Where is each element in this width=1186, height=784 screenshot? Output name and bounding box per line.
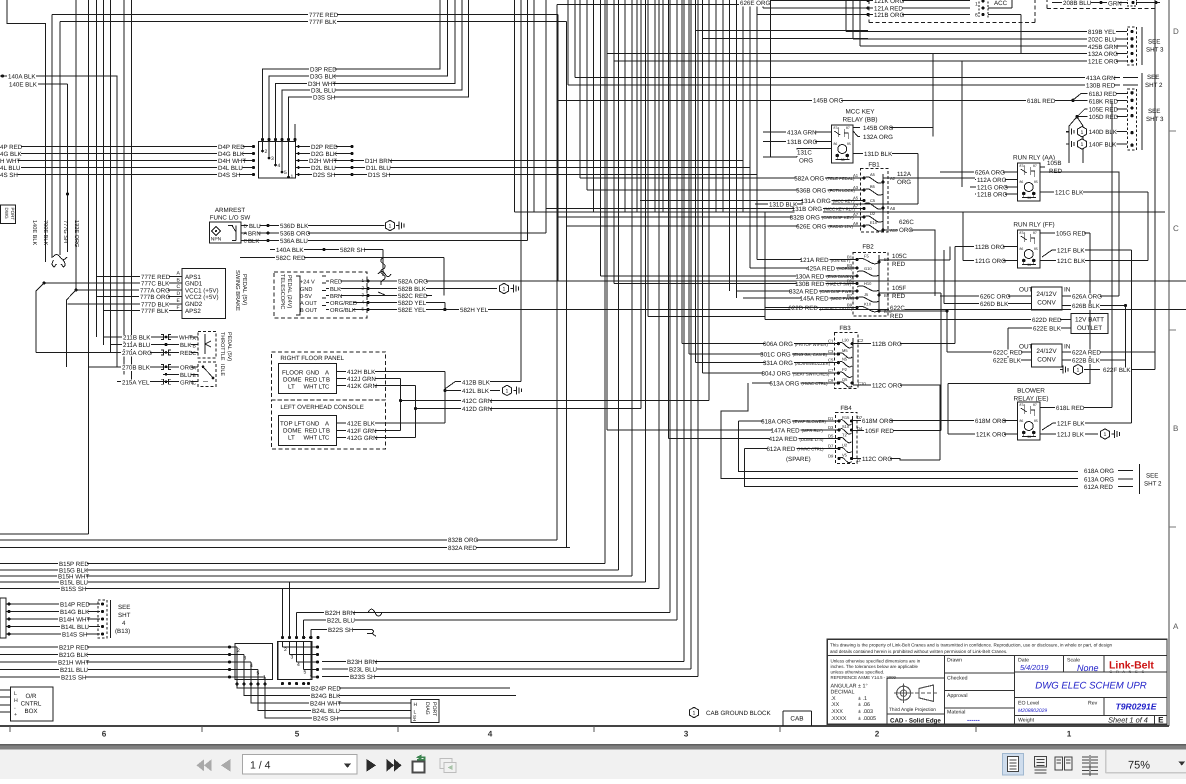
wire 121G ORG to FF <box>963 260 1018 262</box>
svg-text:4: 4 <box>362 300 365 305</box>
svg-text:536D BLK: 536D BLK <box>280 223 309 230</box>
svg-text:BLK: BLK <box>248 238 259 245</box>
wire 121E ORG sht3 <box>614 60 1127 62</box>
svg-text:412G GRN: 412G GRN <box>347 435 378 442</box>
svg-text:211A BLU: 211A BLU <box>123 342 150 349</box>
svg-text:C5: C5 <box>828 358 834 363</box>
component 24/12V CONV lower <box>1032 344 1063 367</box>
wire 622B BLK conv2 <box>1062 359 1126 361</box>
svg-text:RELAY (BB): RELAY (BB) <box>843 117 878 124</box>
svg-text:FB2: FB2 <box>862 244 874 251</box>
zone ticks right margin <box>1169 130 1176 132</box>
svg-text:1 / 4: 1 / 4 <box>250 760 271 772</box>
svg-text:626A ORG: 626A ORG <box>975 170 1005 177</box>
svg-text:(HVAC CTRL): (HVAC CTRL) <box>801 381 828 386</box>
svg-text:LEFT OVERHEAD CONSOLE: LEFT OVERHEAD CONSOLE <box>280 404 363 411</box>
toolbar two page continuous button <box>1082 757 1098 763</box>
wire 121C BLK from FF <box>1040 260 1148 262</box>
svg-text:(SEAT SWITCHES): (SEAT SWITCHES) <box>793 371 830 376</box>
svg-text:DOME: DOME <box>283 376 302 383</box>
wire 412D GRN <box>415 385 417 437</box>
svg-text:B14L BLU: B14L BLU <box>61 624 89 631</box>
label 412F GRN <box>346 428 375 435</box>
svg-text:626A ORG: 626A ORG <box>1072 294 1102 301</box>
svg-text:B9: B9 <box>847 303 853 308</box>
label 121E ORG sht3 <box>1087 59 1116 66</box>
connector box2 bottom <box>278 641 312 679</box>
svg-text:SHT 2: SHT 2 <box>1144 481 1162 488</box>
wire 582B ORG out to ground <box>432 288 497 290</box>
svg-text:CNTRL: CNTRL <box>21 701 42 708</box>
label D4 left edge labels <box>0 144 21 151</box>
svg-text:L30: L30 <box>842 338 849 343</box>
svg-text:4: 4 <box>278 163 281 169</box>
svg-text:145B ORG: 145B ORG <box>863 125 893 132</box>
label B24L BLU <box>311 708 340 715</box>
svg-text:LT: LT <box>288 383 295 390</box>
label D1S SH <box>367 172 389 179</box>
shield hook B22S <box>367 629 376 636</box>
svg-text:2: 2 <box>284 647 287 653</box>
wire 626A ORG conv in <box>1062 295 1119 297</box>
label 777D BLK <box>140 302 169 309</box>
svg-text:536A BLU: 536A BLU <box>280 238 308 245</box>
svg-text:112A ORG: 112A ORG <box>977 177 1007 184</box>
svg-text:D5: D5 <box>828 434 834 439</box>
throttle pot box <box>198 332 216 359</box>
wire B15 lines <box>0 563 605 565</box>
svg-text:ARMREST: ARMREST <box>215 207 245 214</box>
svg-text:B21L BLU: B21L BLU <box>60 667 88 674</box>
svg-text:B22S SH: B22S SH <box>328 627 353 634</box>
wire armrest BLK row <box>240 240 243 242</box>
svg-text:H10: H10 <box>864 281 872 286</box>
svg-text:B7: B7 <box>847 293 853 298</box>
svg-text:A: A <box>325 369 329 376</box>
wire 832B ORG long <box>0 539 557 541</box>
svg-text:D4P RED: D4P RED <box>218 144 245 151</box>
svg-text:121A RED: 121A RED <box>800 257 829 264</box>
svg-text:C1: C1 <box>828 339 834 344</box>
zone ticks bottom <box>9 726 11 732</box>
label B22H BRN <box>324 610 353 617</box>
svg-text:140E BLK: 140E BLK <box>9 82 38 89</box>
wire 112A ORG from FB1 <box>883 177 975 179</box>
component DIAG PORT <box>411 700 439 723</box>
svg-text:APS2: APS2 <box>185 308 201 315</box>
svg-text:24/12V: 24/12V <box>1036 291 1057 298</box>
svg-text:215A YEL: 215A YEL <box>122 379 150 386</box>
svg-text:(MCC KEY RLY): (MCC KEY RLY) <box>824 207 855 212</box>
toolbar single page layout button selected <box>1002 754 1023 776</box>
label 121F BLK ff <box>1056 248 1085 255</box>
svg-text:C5: C5 <box>870 198 876 203</box>
svg-text:SWING BRAKE: SWING BRAKE <box>234 270 241 311</box>
label 112B ORG ff <box>974 244 1003 251</box>
wire 211A BLU row <box>111 344 199 346</box>
svg-text:ORG/BLK: ORG/BLK <box>330 307 356 314</box>
svg-text:211B BLK: 211B BLK <box>123 335 151 342</box>
wire top-left corner loop <box>7 0 46 262</box>
svg-text:85: 85 <box>1034 180 1038 184</box>
svg-text:CAB GROUND BLOCK: CAB GROUND BLOCK <box>706 710 772 717</box>
svg-text:121F BLK: 121F BLK <box>1057 248 1085 255</box>
label D2P RED <box>310 144 335 151</box>
svg-text:C2: C2 <box>858 338 864 343</box>
wire 412 vertical H-E <box>444 372 446 423</box>
svg-text:331A ORG: 331A ORG <box>763 360 793 367</box>
wire 832A RED long <box>0 547 570 549</box>
wire mid bundle x514-570 <box>514 0 516 212</box>
wire 105D RED <box>1077 116 1127 118</box>
toolbar previous view icon <box>413 762 425 773</box>
svg-text:832A RED: 832A RED <box>448 545 477 552</box>
label B15L BLU <box>59 580 88 587</box>
svg-text:FB4: FB4 <box>840 405 852 412</box>
svg-text:T2: T2 <box>842 433 847 438</box>
bracket SEE SHT 4 <box>110 600 112 638</box>
node 140E BLK <box>38 83 68 85</box>
wire 777B ORG row <box>96 296 182 298</box>
svg-text:B5: B5 <box>870 184 876 189</box>
svg-text:C R A N E S: C R A N E S <box>1110 670 1146 674</box>
label 626E ORG top <box>557 4 763 6</box>
inline connector 211B <box>161 335 171 340</box>
wire 777F BLK top <box>60 21 566 23</box>
tolerance cell <box>944 656 946 725</box>
wire D2 rows out of connector <box>296 146 353 148</box>
label 121K ORG <box>873 0 902 5</box>
svg-text:131B ORG: 131B ORG <box>787 139 817 146</box>
svg-text:------: ------ <box>967 717 980 724</box>
wire B22L BLU <box>304 619 677 621</box>
svg-text:IN: IN <box>1064 287 1071 294</box>
svg-text:.XX: .XX <box>831 702 840 708</box>
wire 202C BLU <box>853 38 1127 40</box>
svg-text:87a: 87a <box>1020 231 1026 235</box>
label 536B ORG <box>279 231 308 238</box>
wire 105E RED <box>1077 109 1127 117</box>
svg-text:ORG/RED: ORG/RED <box>330 300 357 307</box>
wire 131D BLK lower label <box>755 203 918 205</box>
svg-text:B: B <box>326 376 330 383</box>
label 121G ORG aa <box>976 185 1005 192</box>
label 105E RED <box>1088 107 1117 114</box>
svg-text:Weight: Weight <box>1018 718 1035 724</box>
svg-text:EO Level: EO Level <box>1018 701 1039 707</box>
svg-text:B: B <box>1173 424 1178 433</box>
wire 412E BLK <box>337 422 445 424</box>
wire 618A ORG to SHT2 <box>739 421 1079 472</box>
svg-text:B23S SH: B23S SH <box>350 674 375 681</box>
svg-text:A9: A9 <box>853 221 859 226</box>
svg-text:F: F <box>177 305 180 311</box>
label 412G GRN <box>346 435 375 442</box>
svg-text:M5: M5 <box>842 348 848 353</box>
svg-text:B: B <box>326 428 330 435</box>
svg-text:A8: A8 <box>890 206 896 211</box>
svg-text:CAB: CAB <box>790 716 803 723</box>
wire B22S SH <box>311 628 368 630</box>
svg-text:622F BLK: 622F BLK <box>1103 367 1131 374</box>
svg-text:ANGULAR ± 1°: ANGULAR ± 1° <box>831 683 868 689</box>
svg-text:A1: A1 <box>853 173 859 178</box>
svg-text:IN: IN <box>1064 344 1071 351</box>
connector strip sht3 group2 <box>1128 89 1137 150</box>
svg-text:RED: RED <box>892 293 906 300</box>
svg-text:140F BLK: 140F BLK <box>1089 142 1117 149</box>
svg-text:832B ORG: 832B ORG <box>790 215 820 222</box>
label 413A GRN mcc <box>786 130 815 137</box>
svg-text:BOX: BOX <box>24 708 37 715</box>
svg-text:30: 30 <box>1027 263 1031 267</box>
svg-text:112C ORG: 112C ORG <box>862 456 892 463</box>
svg-text:622D RED: 622D RED <box>1032 317 1062 324</box>
svg-text:Checked: Checked <box>947 676 968 682</box>
wire left corner stack <box>0 533 89 535</box>
fuses FB1 <box>864 177 883 183</box>
label GRN <box>1107 1 1119 8</box>
svg-text:832A RED: 832A RED <box>789 289 818 296</box>
svg-text:301C ORG: 301C ORG <box>760 352 791 359</box>
label 270A ORG <box>121 350 150 357</box>
component 24/12V CONV upper <box>1032 287 1063 310</box>
svg-text:626D BLK: 626D BLK <box>980 301 1009 308</box>
label BLK <box>179 343 191 349</box>
wire acc out <box>988 14 1021 16</box>
svg-text:112B ORG: 112B ORG <box>975 244 1005 251</box>
title block <box>827 639 1167 724</box>
wire 121C BLK from AA <box>1040 191 1148 193</box>
label B23S SH <box>349 674 374 681</box>
svg-text:D3L BLU: D3L BLU <box>311 88 336 95</box>
svg-text:1: 1 <box>1077 368 1080 374</box>
label 208B BLU <box>1062 0 1091 7</box>
wire 622D RED outlet <box>765 319 1071 321</box>
svg-text:105C: 105C <box>892 253 907 260</box>
svg-text:105B: 105B <box>1047 160 1061 167</box>
label 626A ORG conv <box>1071 294 1100 301</box>
svg-text:(FR/TOP WIPER): (FR/TOP WIPER) <box>795 342 828 347</box>
svg-text:B14P RED: B14P RED <box>60 602 90 609</box>
label 140D BLK <box>1088 129 1117 136</box>
label 140F BLK <box>1088 142 1117 149</box>
svg-text:105E RED: 105E RED <box>1089 106 1119 113</box>
svg-text:425A RED: 425A RED <box>806 266 835 273</box>
svg-text:D3P RED: D3P RED <box>310 67 337 74</box>
connector B14 dashed <box>98 600 107 638</box>
label 121K ORG ee <box>975 432 1004 439</box>
svg-text:626C ORG: 626C ORG <box>980 294 1011 301</box>
svg-text:RED: RED <box>890 313 904 320</box>
svg-text:147A RED: 147A RED <box>771 427 800 434</box>
label 618L RED ee <box>1055 405 1084 412</box>
svg-text:RED: RED <box>330 280 342 286</box>
svg-text:D4L BLU: D4L BLU <box>218 165 243 172</box>
wire B22 risers <box>296 613 298 638</box>
label D2G BLK <box>310 151 335 158</box>
svg-text:A5: A5 <box>870 172 876 177</box>
svg-text:87: 87 <box>1033 164 1037 168</box>
svg-text:(HVAC CTRL): (HVAC CTRL) <box>797 447 824 452</box>
svg-text:86: 86 <box>1020 247 1024 251</box>
wire 618M ORG from FB4 <box>853 420 1018 422</box>
svg-text:.XXXX: .XXXX <box>831 716 847 722</box>
svg-text:626C: 626C <box>899 219 914 226</box>
svg-text:582C RED: 582C RED <box>276 255 306 262</box>
pins box2 bottom dots <box>281 682 284 685</box>
svg-text:112A: 112A <box>897 171 912 178</box>
svg-text:GND: GND <box>306 420 320 427</box>
svg-text:inches. The tolerances below: inches. The tolerances below are applica… <box>831 664 919 669</box>
svg-text:4: 4 <box>488 730 493 739</box>
component DWG PORT left <box>1 205 16 224</box>
label 412C GRN <box>461 398 490 405</box>
ground 412L <box>503 385 512 395</box>
svg-text:(ALARM/BUZZER): (ALARM/BUZZER) <box>795 361 831 366</box>
drawing frame bottom border <box>0 725 1169 727</box>
svg-text:D: D <box>1173 27 1179 36</box>
wire 211B BLK row <box>104 336 198 338</box>
svg-text:FUNC L/O SW: FUNC L/O SW <box>210 215 251 222</box>
svg-text:618M ORG: 618M ORG <box>862 418 893 425</box>
label 105D RED <box>1088 114 1117 121</box>
fuses FB2 <box>857 258 879 263</box>
svg-text:618A ORG: 618A ORG <box>761 418 791 425</box>
svg-text:582C RED: 582C RED <box>398 293 428 300</box>
svg-text:WHT LT: WHT LT <box>304 383 326 390</box>
twisted shield telescopic top <box>378 272 391 277</box>
label 582R SH <box>339 247 364 254</box>
svg-text:ACC: ACC <box>994 0 1008 7</box>
label D3S SH <box>312 95 334 102</box>
svg-text:.X: .X <box>831 696 836 702</box>
svg-text:A3: A3 <box>853 185 859 190</box>
label 215A YEL <box>121 379 150 386</box>
svg-text:(EVAP BLOWER): (EVAP BLOWER) <box>793 419 826 424</box>
inline connector 215A <box>161 379 171 384</box>
label 626D BLK <box>979 301 1008 308</box>
svg-text:BLK: BLK <box>180 342 191 349</box>
wire 777D BLK row <box>68 303 183 305</box>
svg-text:425B GRN: 425B GRN <box>1088 44 1118 51</box>
label 412H BLK <box>346 369 375 376</box>
svg-text:RED LT: RED LT <box>305 376 326 383</box>
svg-text:BLU: BLU <box>249 223 261 230</box>
ground 536D <box>386 220 395 230</box>
label 131B ORG mcc <box>786 139 815 146</box>
svg-text:C: C <box>193 351 197 357</box>
svg-text:105G RED: 105G RED <box>1056 231 1086 238</box>
svg-text:and details contained herein i: and details contained herein is prohibit… <box>830 649 1007 654</box>
twisted pair B22 <box>368 609 382 616</box>
left bundle verticals <box>75 0 77 290</box>
wire 412K GRN <box>337 384 416 386</box>
svg-text:131A ORG: 131A ORG <box>801 198 831 205</box>
wire 412L BLK <box>445 389 500 391</box>
label D4L BLU <box>217 165 242 172</box>
wire 819B YEL <box>846 30 1127 32</box>
svg-text:D7: D7 <box>828 444 834 449</box>
component LEFT OVERHEAD CONSOLE <box>271 400 385 449</box>
svg-text:D4H WHT: D4H WHT <box>218 158 246 165</box>
svg-text:832B ORG: 832B ORG <box>448 537 478 544</box>
wire 626C ORG from FB1 <box>883 230 935 296</box>
wire 121F BLK to EE <box>1042 423 1132 430</box>
label B14G BLK <box>59 609 88 616</box>
label B21H WHT <box>57 660 86 667</box>
svg-text:SHT: SHT <box>118 612 131 619</box>
label D3G BLK <box>309 74 334 81</box>
svg-text:A: A <box>325 420 329 427</box>
label B21P RED <box>58 645 87 652</box>
svg-text:412A RED: 412A RED <box>769 436 798 443</box>
label B23L BLU <box>348 667 377 674</box>
svg-text:GRN: GRN <box>1108 1 1122 8</box>
svg-text:± .1: ± .1 <box>858 696 867 702</box>
wire 612A RED right <box>1083 484 1112 491</box>
wire 413A GRN to MCC <box>763 131 832 133</box>
label 618K RED <box>1088 99 1117 106</box>
wire 121A RED row <box>763 7 868 9</box>
svg-text:E: E <box>1158 715 1164 724</box>
svg-text:5: 5 <box>362 307 365 312</box>
svg-text:4L BLU: 4L BLU <box>0 165 20 172</box>
svg-text:S10: S10 <box>842 424 850 429</box>
wire 132A ORG sht3 <box>607 53 1127 55</box>
svg-text:B8: B8 <box>884 293 890 298</box>
connector top right <box>1128 0 1137 6</box>
pins D3 top of connector <box>261 138 264 141</box>
svg-text:FLOOR: FLOOR <box>282 369 304 376</box>
svg-text:112B ORG: 112B ORG <box>872 341 902 348</box>
wire diagonal joins swing <box>67 290 76 367</box>
svg-text:D2L BLU: D2L BLU <box>311 165 336 172</box>
label B24S SH <box>312 716 337 723</box>
label 832B ORG <box>447 537 476 544</box>
svg-text:140A BLK: 140A BLK <box>8 74 36 81</box>
svg-text:(MCC KEY): (MCC KEY) <box>833 199 855 204</box>
svg-text:+24 V: +24 V <box>300 279 315 285</box>
svg-text:4S SH: 4S SH <box>0 172 18 179</box>
svg-text:105D RED: 105D RED <box>1089 114 1119 121</box>
svg-text:C: C <box>177 284 181 290</box>
label 622F BLK <box>1102 367 1131 374</box>
label 412K GRN <box>346 383 375 390</box>
svg-text:121C BLK: 121C BLK <box>1057 258 1086 265</box>
svg-text:B24H WHT: B24H WHT <box>310 701 342 708</box>
svg-text:ORG: ORG <box>897 179 911 186</box>
label 145B ORG mcc <box>862 125 891 132</box>
svg-text:B5: B5 <box>847 279 853 284</box>
wire 121J BLK from EE <box>1040 433 1098 435</box>
label 626C ORG conv <box>979 294 1008 301</box>
wire 131B ORG to MCC <box>763 141 832 143</box>
svg-text:C: C <box>325 435 330 442</box>
svg-text:BRN: BRN <box>248 231 261 238</box>
node 582H junction <box>443 308 446 311</box>
svg-text:412B BLK: 412B BLK <box>462 379 491 386</box>
svg-text:86: 86 <box>1020 419 1024 423</box>
wire 613A ORG right <box>1083 477 1112 484</box>
svg-text:B1: B1 <box>847 255 853 260</box>
svg-text:121B ORG: 121B ORG <box>977 192 1007 199</box>
toolbar continuous layout button <box>1035 757 1047 768</box>
wire FB4 rows <box>739 420 840 422</box>
svg-text:30: 30 <box>841 158 845 162</box>
wire D1 rows <box>352 160 743 162</box>
svg-text:87: 87 <box>846 126 850 130</box>
